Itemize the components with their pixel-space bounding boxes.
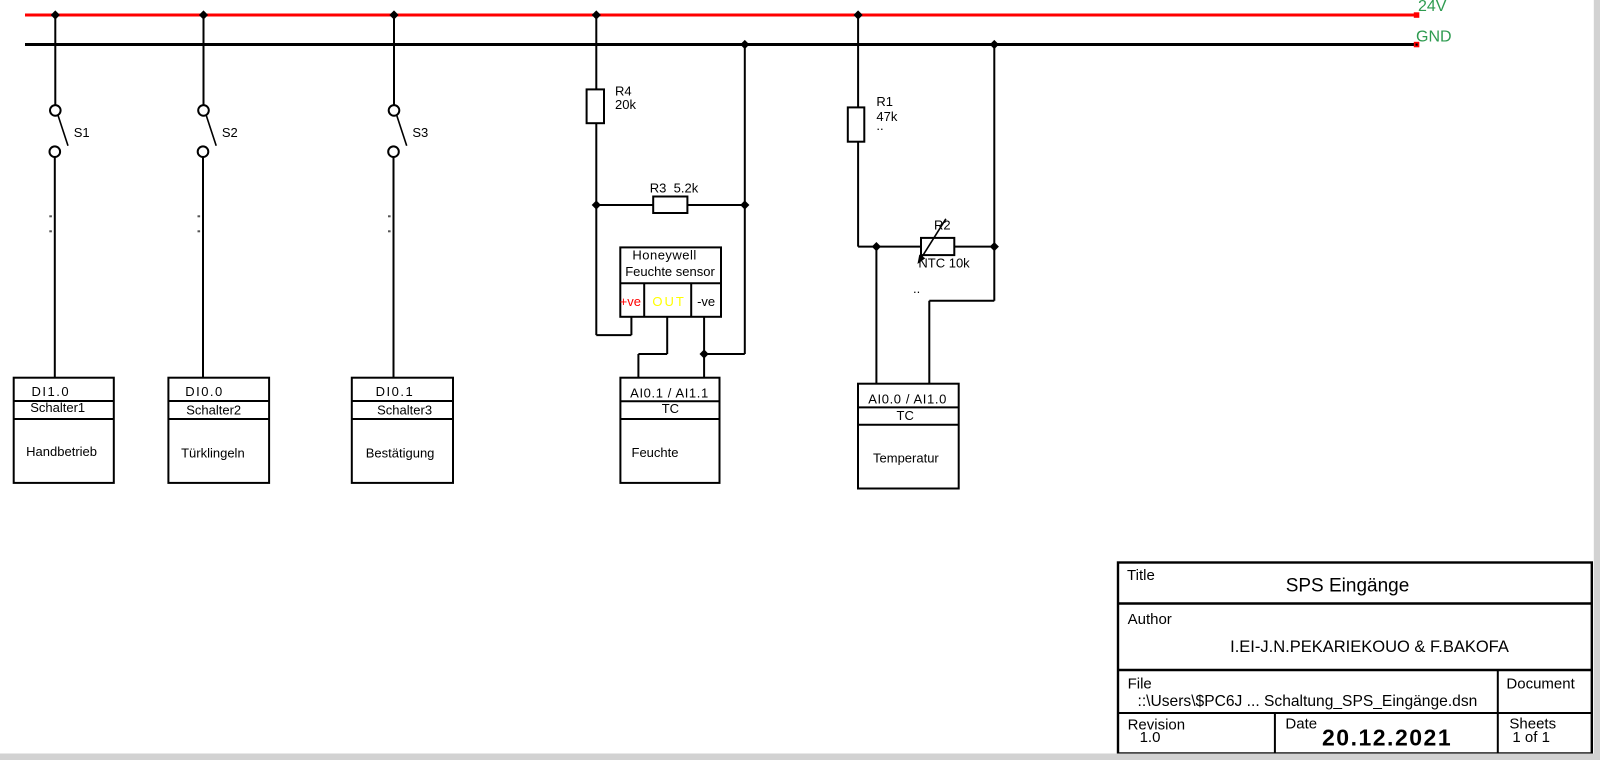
svg-text:Date: Date bbox=[1285, 716, 1317, 733]
svg-text:..: .. bbox=[876, 118, 883, 133]
svg-text:Feuchte sensor: Feuchte sensor bbox=[625, 264, 715, 279]
svg-text:TC: TC bbox=[897, 408, 914, 423]
svg-text:1 of 1: 1 of 1 bbox=[1512, 729, 1550, 746]
svg-text:1.0: 1.0 bbox=[1140, 729, 1161, 746]
svg-text:DI0.0: DI0.0 bbox=[185, 384, 224, 399]
svg-text:Document: Document bbox=[1506, 676, 1575, 693]
svg-text:NTC 10k: NTC 10k bbox=[918, 256, 970, 271]
svg-text:..: .. bbox=[913, 281, 920, 296]
svg-text:Feuchte: Feuchte bbox=[632, 445, 679, 460]
svg-text:Temperatur: Temperatur bbox=[873, 450, 939, 465]
svg-text:S2: S2 bbox=[222, 125, 238, 140]
svg-text:S3: S3 bbox=[412, 125, 428, 140]
svg-text:R2: R2 bbox=[934, 218, 951, 233]
svg-text:::\Users\$PC6J ... Schaltung_S: ::\Users\$PC6J ... Schaltung_SPS_Eingäng… bbox=[1138, 693, 1478, 710]
svg-text:Title: Title bbox=[1127, 567, 1155, 584]
svg-text:S1: S1 bbox=[74, 125, 90, 140]
svg-text:OUT: OUT bbox=[652, 294, 685, 309]
svg-text:TC: TC bbox=[662, 401, 679, 416]
svg-text:R3 5.2k: R3 5.2k bbox=[650, 181, 699, 196]
svg-text:I.EI-J.N.PEKARIEKOUO & F.BAKOF: I.EI-J.N.PEKARIEKOUO & F.BAKOFA bbox=[1230, 638, 1509, 656]
svg-text:-ve: -ve bbox=[697, 294, 715, 309]
svg-text:DI0.1: DI0.1 bbox=[376, 384, 415, 399]
svg-text:AI0.1 / AI1.1: AI0.1 / AI1.1 bbox=[630, 386, 709, 401]
svg-text:Bestätigung: Bestätigung bbox=[366, 445, 435, 460]
svg-text:GND: GND bbox=[1416, 29, 1452, 46]
svg-text:+ve: +ve bbox=[620, 294, 641, 309]
svg-text:AI0.0 / AI1.0: AI0.0 / AI1.0 bbox=[868, 392, 947, 407]
svg-text:Handbetrieb: Handbetrieb bbox=[26, 444, 97, 459]
svg-text:Schalter1: Schalter1 bbox=[30, 400, 85, 415]
svg-text:20.12.2021: 20.12.2021 bbox=[1322, 725, 1452, 751]
svg-text:Author: Author bbox=[1128, 611, 1172, 628]
svg-text:24V: 24V bbox=[1418, 0, 1447, 15]
svg-text:Schalter2: Schalter2 bbox=[186, 403, 241, 418]
svg-text:DI1.0: DI1.0 bbox=[32, 384, 71, 399]
svg-text:R1: R1 bbox=[876, 94, 893, 109]
svg-text:Türklingeln: Türklingeln bbox=[181, 445, 245, 460]
svg-text:20k: 20k bbox=[615, 97, 636, 112]
svg-text:Honeywell: Honeywell bbox=[632, 248, 696, 263]
svg-text:Schalter3: Schalter3 bbox=[377, 403, 432, 418]
svg-text:File: File bbox=[1128, 676, 1152, 693]
svg-text:SPS Eingänge: SPS Eingänge bbox=[1286, 576, 1410, 597]
